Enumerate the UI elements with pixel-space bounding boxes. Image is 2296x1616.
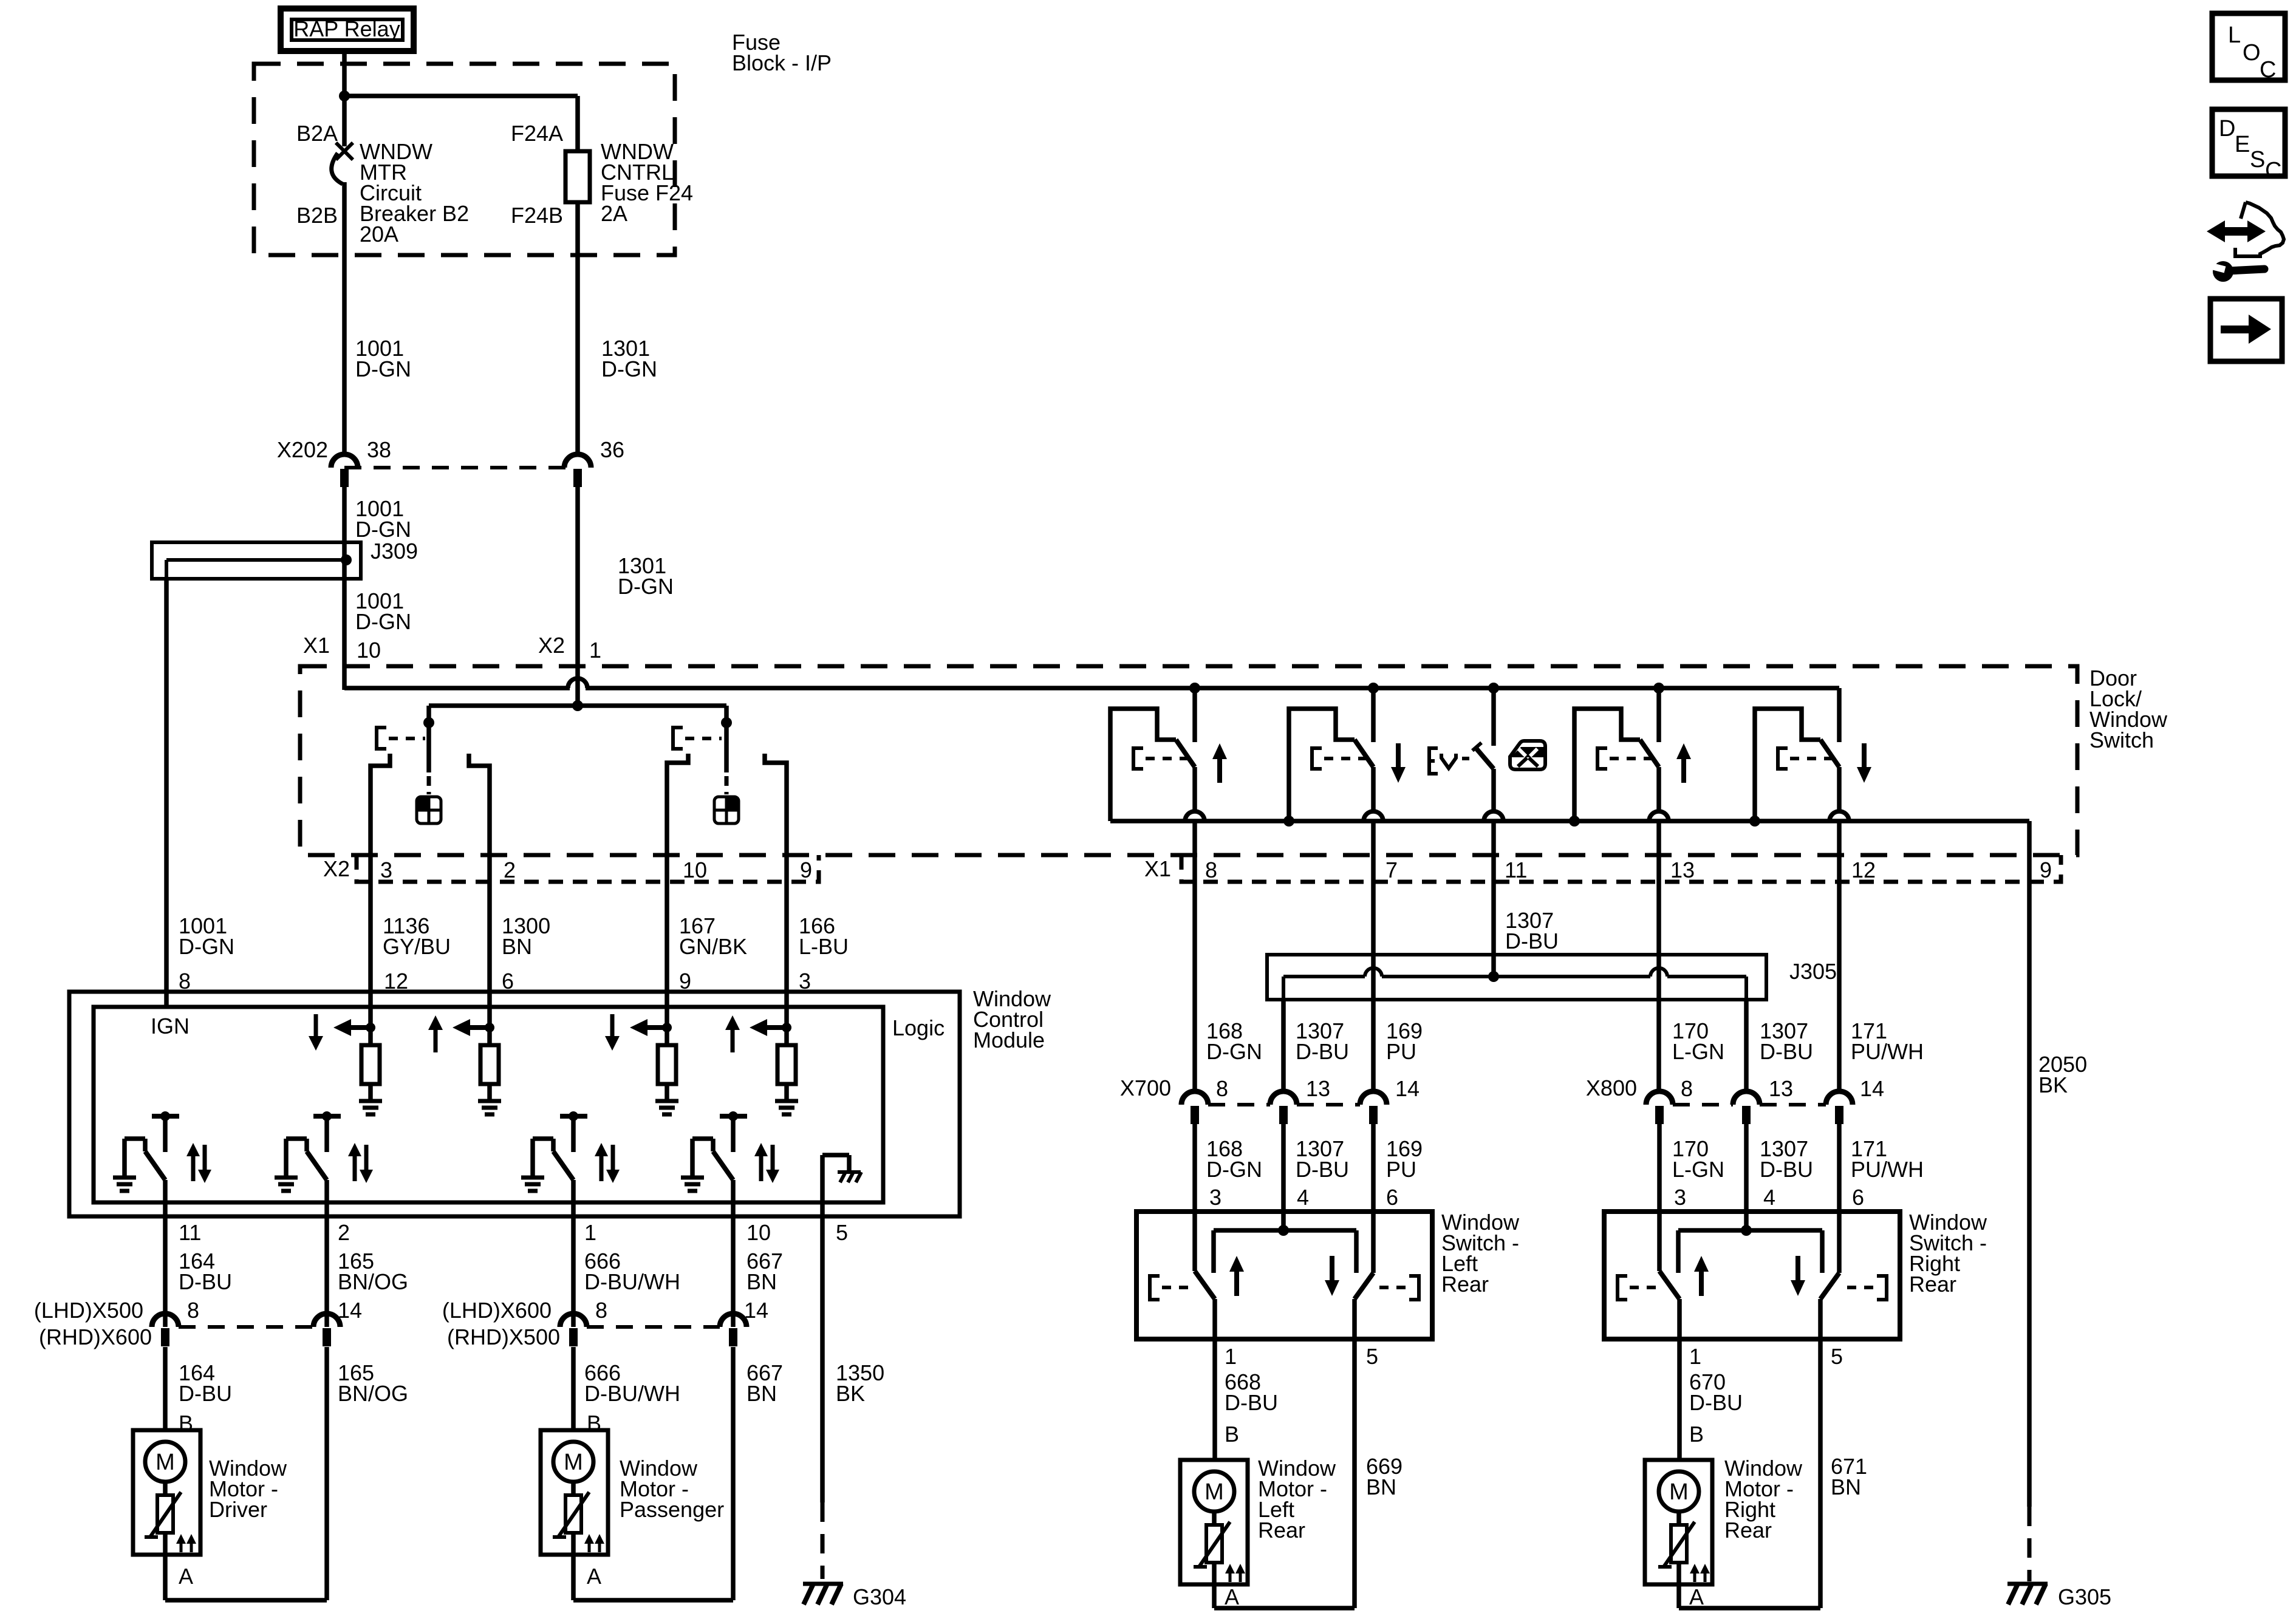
svg-text:D-GN: D-GN [179, 934, 234, 959]
connector X500 [152, 1314, 340, 1346]
svg-text:(LHD)X500: (LHD)X500 [34, 1298, 143, 1323]
wire 668 D-BU [1212, 1339, 1217, 1460]
label J305 [1789, 959, 1837, 984]
svg-text:13: 13 [1306, 1076, 1330, 1101]
label G304 [853, 1584, 906, 1609]
front driver switch contact right [469, 754, 490, 882]
module input sense 167 [605, 994, 678, 1114]
label module pin 5 [836, 1220, 848, 1245]
label wire 671 BN [1831, 1454, 1867, 1499]
svg-text:G304: G304 [853, 1584, 906, 1609]
svg-text:D: D [2219, 116, 2235, 141]
window control module box [69, 992, 960, 1216]
module output driver 1 [113, 1111, 211, 1218]
svg-text:13: 13 [1670, 857, 1695, 882]
svg-text:D-BU: D-BU [179, 1269, 232, 1294]
svg-text:X2: X2 [538, 633, 565, 658]
svg-text:D-GN: D-GN [601, 356, 657, 381]
switch detent symbol passenger [714, 797, 739, 823]
wire 164 above X500 [163, 1216, 168, 1327]
svg-text:S: S [2250, 147, 2265, 172]
label X800 [1586, 1076, 1637, 1100]
svg-text:BN/OG: BN/OG [338, 1269, 408, 1294]
label driver motor pin A [179, 1564, 193, 1589]
svg-text:D-GN: D-GN [355, 517, 411, 542]
module input sense 1300 [428, 994, 501, 1114]
wire 1300 from pin2 [487, 882, 492, 994]
label wire 1301 D-GN upper [601, 336, 657, 381]
svg-text:11: 11 [1505, 857, 1527, 882]
svg-text:D-BU: D-BU [1760, 1039, 1813, 1064]
label Window Switch Right Rear [1909, 1210, 1987, 1297]
label X500 pin 14 [338, 1298, 362, 1323]
label wire 1307 D-BU d [1760, 1136, 1813, 1182]
svg-text:D-BU: D-BU [1296, 1039, 1349, 1064]
label band pin 11 [1505, 857, 1527, 882]
label X202 [277, 437, 328, 462]
wire 165 above X500 [324, 1216, 329, 1327]
label switch R pin 4 [1763, 1185, 1775, 1210]
label Door Lock Window Switch [2089, 666, 2168, 752]
svg-text:Switch: Switch [2089, 728, 2154, 752]
label wire 1001 D-GN mid [355, 496, 411, 542]
svg-text:12: 12 [1851, 857, 1876, 882]
wire driver motor loop [165, 1555, 327, 1600]
label X1 band [1144, 856, 1171, 881]
wire 166 from pin9 [784, 882, 789, 994]
wire 169 to switch [1371, 1123, 1376, 1212]
svg-text:D-BU: D-BU [1760, 1157, 1813, 1182]
svg-text:D-BU: D-BU [1505, 929, 1559, 953]
icon double arrow [2207, 220, 2266, 242]
front passenger window switch common [721, 706, 732, 794]
label RHD X500 [447, 1325, 560, 1349]
label X700 pin 14 [1395, 1076, 1420, 1101]
label band pin 12 [1851, 857, 1876, 882]
svg-text:3: 3 [1674, 1185, 1686, 1210]
label wire 2050 BK [2038, 1052, 2087, 1097]
wire 1307 left branch [1281, 1000, 1286, 1091]
svg-text:J309: J309 [371, 539, 418, 564]
window switch left rear [1136, 1212, 1432, 1339]
label LR pin 1 [1225, 1344, 1237, 1369]
window motor left rear [1180, 1460, 1248, 1584]
svg-text:GY/BU: GY/BU [383, 934, 451, 959]
svg-text:6: 6 [1852, 1185, 1864, 1210]
fuse F24 [565, 151, 590, 202]
svg-text:8: 8 [1216, 1076, 1228, 1101]
label X600 pin 8 [595, 1298, 607, 1323]
svg-text:X700: X700 [1120, 1076, 1171, 1100]
wire 170 to switch [1657, 1123, 1662, 1212]
window up switch driver S1 [1110, 688, 1227, 882]
label band pin 3 [380, 857, 392, 882]
svg-text:5: 5 [836, 1220, 848, 1245]
svg-text:B2A: B2A [296, 121, 338, 146]
label wire 171 PU/WH a [1851, 1018, 1924, 1064]
switch actuator bracket [377, 728, 425, 749]
label module pin 12 [384, 969, 408, 994]
label B2B [296, 203, 338, 228]
label Logic [892, 1015, 945, 1040]
svg-text:Rear: Rear [1441, 1272, 1489, 1297]
label LR motor pin B [1225, 1422, 1239, 1447]
RAP Relay box [281, 9, 414, 51]
label wire 670 D-BU [1689, 1369, 1743, 1415]
svg-text:IGN: IGN [151, 1014, 190, 1038]
label wire 168 D-GN a [1206, 1018, 1262, 1064]
svg-text:A: A [587, 1564, 601, 1589]
svg-text:BN: BN [1366, 1475, 1396, 1499]
label X700 [1120, 1076, 1171, 1100]
connector band X2 [357, 855, 819, 882]
window down switch driver S2 [1283, 688, 1406, 882]
front passenger switch contact left [667, 754, 688, 882]
svg-text:Passenger: Passenger [620, 1497, 724, 1522]
label switch R pin 6 [1852, 1185, 1864, 1210]
svg-text:BN: BN [747, 1269, 777, 1294]
label module pin 2 [338, 1220, 350, 1245]
label wire 667 BN b [747, 1360, 783, 1406]
node feed junction [572, 700, 583, 711]
wire 667 above X600 [731, 1216, 736, 1327]
front passenger switch contact right [765, 754, 787, 882]
label LR pin 5 [1366, 1344, 1378, 1369]
wire front switch feed [429, 703, 726, 708]
svg-text:9: 9 [800, 857, 812, 882]
svg-text:D-GN: D-GN [618, 574, 674, 599]
wire 671 BN [1818, 1339, 1823, 1608]
window lockout switch S3 [1429, 688, 1503, 882]
svg-text:D-BU: D-BU [179, 1381, 232, 1406]
label wire 1300 BN [502, 913, 550, 959]
svg-text:D-GN: D-GN [1206, 1039, 1262, 1064]
wire 168 to switch [1192, 1123, 1197, 1212]
ground G304 [803, 1584, 843, 1604]
front driver window switch common [423, 706, 434, 794]
label wire 165 BN/OG b [338, 1360, 408, 1406]
svg-text:D-BU: D-BU [1296, 1157, 1349, 1182]
svg-text:D-BU: D-BU [1689, 1390, 1743, 1415]
svg-text:8: 8 [187, 1298, 199, 1323]
wire 168 from pin8 [1192, 882, 1197, 1091]
svg-text:E: E [2235, 132, 2250, 157]
connector X700 [1181, 1091, 1387, 1124]
svg-text:PU: PU [1386, 1039, 1416, 1064]
module output driver 4 [681, 1111, 779, 1218]
window motor passenger [541, 1430, 608, 1555]
wire 1307 from pin11 [1491, 882, 1496, 977]
label Window Control Module [973, 986, 1051, 1052]
wire 171 from pin12 [1837, 882, 1842, 1091]
svg-text:BN: BN [502, 934, 532, 959]
label wire 1001 D-GN below J309 [355, 588, 411, 634]
svg-text:10: 10 [683, 857, 707, 882]
svg-text:14: 14 [338, 1298, 362, 1323]
label F24B [511, 203, 563, 228]
svg-text:36: 36 [600, 437, 624, 462]
svg-text:D-GN: D-GN [1206, 1157, 1262, 1182]
connector X800 [1646, 1091, 1853, 1124]
label band pin 8 [1205, 857, 1217, 882]
svg-text:8: 8 [1205, 857, 1217, 882]
wire 669 BN [1352, 1339, 1357, 1608]
label wire 170 L-GN a [1672, 1018, 1724, 1064]
label wire 1307 D-BU c [1296, 1136, 1349, 1182]
svg-text:GN/BK: GN/BK [679, 934, 747, 959]
svg-text:BN: BN [1831, 1475, 1861, 1499]
svg-text:Block - I/P: Block - I/P [732, 50, 832, 75]
label band pin 9 right [2040, 857, 2052, 882]
label X800 pin 14 [1860, 1076, 1884, 1101]
svg-text:O: O [2243, 40, 2261, 66]
wire RR motor loop [1679, 1584, 1820, 1608]
label wire 1136 GY/BU [383, 913, 451, 959]
label wire 1307 D-BU a [1296, 1018, 1349, 1064]
label B2A [296, 121, 338, 146]
svg-text:M: M [155, 1450, 175, 1475]
node junction B+ split [339, 90, 350, 101]
window down switch rear S5 [1749, 688, 1871, 882]
label module pin 10 [747, 1220, 771, 1245]
svg-text:D-GN: D-GN [355, 609, 411, 634]
svg-text:5: 5 [1831, 1344, 1843, 1369]
svg-text:10: 10 [357, 638, 381, 663]
wire 666 above X600 [571, 1216, 576, 1327]
label F24A [511, 121, 563, 146]
svg-text:3: 3 [1209, 1185, 1221, 1210]
svg-text:20A: 20A [360, 222, 398, 247]
label pass motor pin B [587, 1411, 601, 1436]
svg-text:BN/OG: BN/OG [338, 1381, 408, 1406]
label wire 669 BN [1366, 1454, 1403, 1499]
label switch L pin 6 [1386, 1185, 1398, 1210]
module input sense 1136 [309, 994, 382, 1114]
label wire 164 D-BU a [179, 1249, 232, 1294]
label wire 169 PU a [1386, 1018, 1423, 1064]
label X800 pin 8 [1681, 1076, 1693, 1101]
label pin 36 [600, 437, 624, 462]
svg-text:F24A: F24A [511, 121, 563, 146]
svg-text:M: M [1669, 1479, 1689, 1505]
label LHD X500 [34, 1298, 143, 1323]
label wire 169 PU b [1386, 1136, 1423, 1182]
label RHD X600 [39, 1325, 152, 1349]
svg-text:D-BU: D-BU [1225, 1390, 1278, 1415]
label Window Motor Left Rear [1258, 1456, 1336, 1543]
svg-text:Rear: Rear [1909, 1272, 1956, 1297]
svg-text:Rear: Rear [1258, 1518, 1305, 1543]
svg-text:X202: X202 [277, 437, 328, 462]
svg-text:BN: BN [747, 1381, 777, 1406]
wire 2050 BK [2027, 882, 2032, 1581]
label WNDW CNTRL Fuse F24 2A [601, 139, 693, 226]
svg-text:Module: Module [973, 1028, 1045, 1052]
fuse block dashed box [254, 64, 675, 255]
node bus S1 [1189, 683, 1200, 694]
svg-text:5: 5 [1366, 1344, 1378, 1369]
label band pin 10 [683, 857, 707, 882]
connector band X1 [1181, 855, 2061, 882]
svg-text:C: C [2265, 158, 2281, 183]
label band pin 13 [1670, 857, 1695, 882]
wire 169 from pin7 [1371, 882, 1376, 1091]
splice J305 [1267, 955, 1766, 1000]
svg-text:2: 2 [338, 1220, 350, 1245]
label X700 pin 8 [1216, 1076, 1228, 1101]
svg-text:Rear: Rear [1724, 1518, 1772, 1543]
svg-text:PU/WH: PU/WH [1851, 1157, 1924, 1182]
label Window Switch Left Rear [1441, 1210, 1520, 1297]
wire bus 1001 horizontal [344, 686, 1839, 690]
label X600 pin 14 [744, 1298, 768, 1323]
label wire 166 L-BU [799, 913, 849, 959]
label RR pin 5 [1831, 1344, 1843, 1369]
svg-text:B: B [1689, 1422, 1704, 1447]
svg-text:F24B: F24B [511, 203, 563, 228]
circuit breaker B2 [332, 143, 353, 184]
wire 1301 below X202 [575, 487, 580, 706]
svg-text:6: 6 [1386, 1185, 1398, 1210]
svg-text:M: M [564, 1450, 583, 1475]
wire 1001 below X202 [342, 487, 347, 690]
svg-text:4: 4 [1763, 1185, 1775, 1210]
svg-text:8: 8 [595, 1298, 607, 1323]
svg-text:1: 1 [589, 638, 601, 663]
svg-text:L: L [2228, 22, 2241, 48]
label driver motor pin B [179, 1411, 193, 1436]
wire to fuse F24 [344, 96, 578, 151]
label RR motor pin A [1689, 1584, 1704, 1609]
module logic box [94, 1007, 883, 1202]
svg-text:X1: X1 [303, 633, 330, 658]
wire 170 from pin13 [1656, 882, 1661, 1091]
icon DESC box [2212, 109, 2285, 183]
icon arrow box [2210, 299, 2282, 361]
label module pin 3 [799, 969, 811, 994]
svg-text:D-BU/WH: D-BU/WH [584, 1381, 680, 1406]
window switch right rear [1604, 1212, 1900, 1339]
label wire 165 BN/OG a [338, 1249, 408, 1294]
wire 167 from pin10 [665, 882, 669, 994]
svg-text:J305: J305 [1789, 959, 1837, 984]
label LR motor pin A [1225, 1584, 1239, 1609]
wire 1307 to switch R [1744, 1123, 1749, 1233]
svg-text:X800: X800 [1586, 1076, 1637, 1100]
label wire 667 BN a [747, 1249, 783, 1294]
window motor driver [133, 1430, 200, 1555]
window motor right rear [1645, 1460, 1712, 1584]
label Fuse Block - I/P [732, 30, 832, 75]
window up switch rear S4 [1569, 688, 1691, 882]
wire 1001 IGN feed to module [164, 579, 169, 994]
svg-text:PU: PU [1386, 1157, 1416, 1182]
label module pin 6 [502, 969, 514, 994]
svg-text:10: 10 [747, 1220, 771, 1245]
label wire 168 D-GN b [1206, 1136, 1262, 1182]
label RR pin 1 [1689, 1344, 1701, 1369]
svg-text:L-GN: L-GN [1672, 1157, 1724, 1182]
svg-text:PU/WH: PU/WH [1851, 1039, 1924, 1064]
svg-text:1: 1 [1689, 1344, 1701, 1369]
label Window Motor Driver [209, 1456, 287, 1522]
label module pin 9 [679, 969, 691, 994]
node bus S2 [1368, 683, 1379, 694]
svg-text:7: 7 [1385, 857, 1398, 882]
svg-text:4: 4 [1297, 1185, 1309, 1210]
label pin 1 [589, 638, 601, 663]
svg-text:L-BU: L-BU [799, 934, 849, 959]
label pin 38 [367, 437, 391, 462]
label wire 666 D-BU/WH b [584, 1360, 680, 1406]
svg-text:X2: X2 [323, 856, 350, 881]
wire IGN into module [164, 994, 169, 1009]
label X700 pin 13 [1306, 1076, 1330, 1101]
svg-text:(LHD)X600: (LHD)X600 [442, 1298, 552, 1323]
label band pin 9 left [800, 857, 812, 882]
svg-text:3: 3 [380, 857, 392, 882]
label module pin 1 [584, 1220, 596, 1245]
svg-text:8: 8 [1681, 1076, 1693, 1101]
window lockout icon [1510, 741, 1545, 769]
svg-text:B: B [1225, 1422, 1239, 1447]
label X1 [303, 633, 330, 658]
wire 1307 to switch L [1281, 1123, 1286, 1233]
label switch L pin 3 [1209, 1185, 1221, 1210]
svg-text:38: 38 [367, 437, 391, 462]
label wire 666 D-BU/WH a [584, 1249, 680, 1294]
label Window Motor Right Rear [1724, 1456, 1803, 1543]
label wire 1301 D-GN mid [618, 553, 674, 599]
label band pin 2 [504, 857, 516, 882]
svg-text:BK: BK [836, 1381, 865, 1406]
switch actuator bracket 2 [673, 728, 722, 749]
wire 667 to loop [731, 1347, 736, 1600]
wire 165 to loop [324, 1347, 329, 1600]
svg-text:L-GN: L-GN [1672, 1039, 1724, 1064]
svg-text:(RHD)X500: (RHD)X500 [447, 1325, 560, 1349]
module internal ground pin5 [822, 1155, 861, 1218]
wire breaker B2B segment [342, 182, 347, 454]
icon LOC box [2212, 13, 2285, 83]
svg-text:11: 11 [179, 1220, 201, 1245]
label wire 668 D-BU [1225, 1369, 1278, 1415]
svg-text:RAP Relay: RAP Relay [293, 16, 400, 41]
label pin 10 [357, 638, 381, 663]
wire 171 to switch [1837, 1123, 1842, 1212]
label wire 1350 BK [836, 1360, 884, 1406]
label X2 band [323, 856, 350, 881]
module output driver 2 [275, 1111, 373, 1218]
wire 164 below X500 [163, 1347, 168, 1430]
svg-text:2A: 2A [601, 201, 627, 226]
svg-text:C: C [2260, 57, 2276, 83]
wire lower bus to pin9 [2027, 821, 2032, 882]
label IGN [151, 1014, 190, 1038]
label switch R pin 3 [1674, 1185, 1686, 1210]
svg-text:9: 9 [2040, 857, 2052, 882]
label LHD X600 [442, 1298, 552, 1323]
label wire 167 GN/BK [679, 913, 747, 959]
svg-text:14: 14 [744, 1298, 768, 1323]
node bus S4 [1653, 683, 1664, 694]
wire 1307 right branch [1744, 1000, 1749, 1091]
label wire 171 PU/WH b [1851, 1136, 1924, 1182]
lower feed bus [1110, 819, 2029, 823]
svg-text:D-GN: D-GN [355, 356, 411, 381]
switch detent symbol driver [417, 797, 441, 823]
label wire 1001 D-GN module [179, 913, 234, 959]
